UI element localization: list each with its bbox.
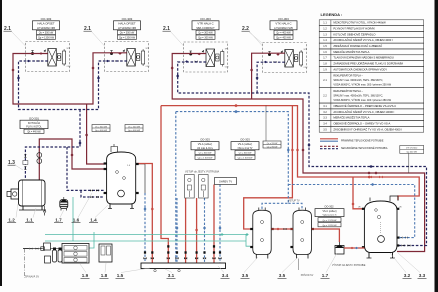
svg-text:OO-301: OO-301	[29, 116, 39, 120]
svg-text:OO-303: OO-303	[200, 17, 211, 21]
svg-text:Qp = 1300 kW: Qp = 1300 kW	[38, 36, 55, 39]
svg-text:3.2: 3.2	[323, 111, 327, 114]
svg-text:1.2: 1.2	[8, 217, 15, 222]
svg-text:REKUPERÁTOR TEPLA –: REKUPERÁTOR TEPLA –	[333, 74, 363, 77]
svg-text:1.9: 1.9	[323, 68, 327, 71]
svg-text:Qp 400 kW: Qp 400 kW	[406, 152, 416, 154]
svg-text:Vykurovanie S: Vykurovanie S	[322, 214, 337, 217]
svg-text:1.9: 1.9	[82, 273, 89, 278]
svg-text:SPALINY max. 4000m3/h, TEPL. 3: SPALINY max. 4000m3/h, TEPL. 380/130°C,	[333, 94, 383, 97]
svg-text:Qp = 460 kW: Qp = 460 kW	[128, 130, 140, 132]
svg-text:VÝSTUP NA JESTV. POTRUBIE: VÝSTUP NA JESTV. POTRUBIE	[332, 264, 366, 267]
svg-text:LITHOMAN IIIB: LITHOMAN IIIB	[118, 26, 136, 30]
svg-text:Qv = 300 kW: Qv = 300 kW	[120, 32, 135, 35]
svg-text:1.8: 1.8	[101, 273, 108, 278]
svg-text:Qk = 440 kW: Qk = 440 kW	[27, 131, 41, 133]
svg-text:VSTUP do JESTV. POTRUBIA: VSTUP do JESTV. POTRUBIA	[185, 171, 220, 174]
svg-text:Qp = 1 303 kW: Qp = 1 303 kW	[238, 157, 254, 159]
svg-text:VODA 80/60°C, VÝKON max. 400 /: VODA 80/60°C, VÝKON max. 400 / priemer 2…	[333, 99, 391, 102]
svg-text:HALA OFSET: HALA OFSET	[118, 22, 136, 26]
svg-text:LITHOMAN IIIB: LITHOMAN IIIB	[37, 26, 55, 30]
svg-text:Qp = 460 kW: Qp = 460 kW	[95, 130, 107, 132]
svg-text:OO-303: OO-303	[278, 17, 289, 21]
svg-text:Qv = 400 kW: Qv = 400 kW	[276, 32, 291, 35]
svg-text:1.3: 1.3	[323, 33, 327, 36]
svg-text:Qv = 93 kW: Qv = 93 kW	[267, 143, 278, 145]
svg-text:HALA OFSET: HALA OFSET	[37, 22, 55, 26]
svg-text:PLYNOVÝ PRETLAKOVÝ HORÁK: PLYNOVÝ PRETLAKOVÝ HORÁK	[333, 27, 375, 31]
svg-text:LEGENDA :: LEGENDA :	[321, 12, 343, 17]
svg-text:VS-C (odber): VS-C (odber)	[322, 210, 336, 213]
svg-text:VSTUP TV: VSTUP TV	[288, 200, 300, 203]
svg-text:REKUPERÁTOR TEPLA –: REKUPERÁTOR TEPLA –	[333, 90, 363, 93]
svg-text:OO-303: OO-303	[122, 17, 133, 21]
svg-text:ZTI 07/2012: ZTI 07/2012	[406, 148, 418, 150]
svg-text:PLYN. KOTOL: PLYN. KOTOL	[26, 126, 42, 129]
svg-text:PRIMÁRNE TEPLOVODNÉ POTRUBIE: PRIMÁRNE TEPLOVODNÉ POTRUBIE	[341, 139, 384, 142]
svg-text:AUTOMATICKÁ CHEMICKÁ ÚPRAVA VO: AUTOMATICKÁ CHEMICKÁ ÚPRAVA VODY	[333, 67, 387, 71]
svg-text:TLAKOVÁ EXPANZNÁ NÁDOBA S MEMB: TLAKOVÁ EXPANZNÁ NÁDOBA S MEMBRÁNOU	[333, 56, 393, 60]
svg-text:Qp = 400 kW: Qp = 400 kW	[276, 36, 291, 39]
svg-text:3.1: 3.1	[323, 105, 327, 108]
svg-text:1.1: 1.1	[323, 22, 327, 25]
svg-text:OO-303: OO-303	[240, 138, 250, 142]
svg-text:3.5: 3.5	[242, 273, 249, 278]
svg-text:LITHOMAN S35: LITHOMAN S35	[274, 26, 293, 30]
svg-text:3.3: 3.3	[419, 273, 426, 278]
svg-text:OO-303: OO-303	[41, 17, 52, 21]
svg-text:VS-A (odber): VS-A (odber)	[238, 143, 253, 146]
svg-text:NÍZKOTEPLOTNÝ KOTOL, VÝKON 440: NÍZKOTEPLOTNÝ KOTOL, VÝKON 440kW	[333, 21, 386, 25]
svg-text:VTR HALA C: VTR HALA C	[197, 22, 213, 26]
svg-text:1.2: 1.2	[323, 28, 327, 31]
svg-text:3.3: 3.3	[323, 117, 327, 120]
svg-text:Qv = 300 kW: Qv = 300 kW	[39, 32, 54, 35]
svg-text:3.5: 3.5	[279, 273, 286, 278]
svg-text:2.1: 2.1	[323, 79, 327, 82]
svg-text:1.8: 1.8	[323, 63, 327, 66]
svg-text:SEKUNDÁRNE TEPLOVODNÉ POTRUBIA: SEKUNDÁRNE TEPLOVODNÉ POTRUBIA	[341, 147, 388, 150]
svg-text:Qp = 86 kW: Qp = 86 kW	[267, 146, 278, 148]
svg-text:1.1: 1.1	[26, 217, 33, 222]
svg-text:AS máx.& Omv: AS máx.& Omv	[197, 147, 214, 150]
svg-text:1.7: 1.7	[323, 57, 327, 60]
svg-text:3.4: 3.4	[222, 273, 229, 278]
svg-text:3.2: 3.2	[404, 273, 411, 278]
svg-text:Qp = 1 303 kW: Qp = 1 303 kW	[198, 157, 214, 159]
svg-text:Qv = 1 123 kW: Qv = 1 123 kW	[323, 220, 337, 222]
svg-text:Qv = 640 kW: Qv = 640 kW	[199, 153, 213, 155]
svg-text:Qp = 1 870 kW: Qp = 1 870 kW	[323, 225, 337, 227]
svg-text:VS-A (odber): VS-A (odber)	[198, 143, 213, 146]
svg-text:VTK HALA C: VTK HALA C	[275, 22, 291, 26]
svg-text:Qv = 640 kW: Qv = 640 kW	[239, 153, 253, 155]
svg-text:3.1: 3.1	[168, 273, 175, 278]
svg-text:1.7: 1.7	[322, 273, 329, 278]
svg-text:Qv = 640 kW: Qv = 640 kW	[95, 126, 107, 128]
svg-text:1.4: 1.4	[90, 217, 97, 222]
svg-text:ŠPINAVÁ SV: ŠPINAVÁ SV	[25, 276, 39, 279]
svg-text:OO-303: OO-303	[200, 138, 210, 142]
svg-text:1.7: 1.7	[55, 217, 62, 222]
svg-text:3.4: 3.4	[323, 122, 327, 125]
svg-text:1.5: 1.5	[323, 45, 327, 48]
svg-text:PRÍVOD SV: PRÍVOD SV	[301, 274, 314, 277]
svg-text:Qv = 300 kW: Qv = 300 kW	[198, 32, 213, 35]
svg-text:1.5: 1.5	[117, 273, 124, 278]
svg-text:Qv = 540 kW: Qv = 540 kW	[128, 126, 140, 128]
svg-text:VODA 80/60°C, VÝKON max. 300 /: VODA 80/60°C, VÝKON max. 300 / priemer 2…	[333, 84, 391, 87]
svg-text:1.4: 1.4	[323, 39, 327, 42]
svg-text:SPALINY max. 6000m3/h, TEPL. 3: SPALINY max. 6000m3/h, TEPL. 380/130°C,	[333, 79, 383, 82]
svg-text:1.6: 1.6	[73, 217, 80, 222]
svg-text:1.6: 1.6	[323, 51, 327, 54]
svg-text:Qp = 1300 kW: Qp = 1300 kW	[119, 36, 136, 39]
svg-text:OHREV TV: OHREV TV	[219, 179, 232, 183]
svg-text:SBA COMPACT: SBA COMPACT	[196, 26, 215, 30]
svg-text:2.2: 2.2	[323, 94, 327, 97]
svg-text:Qp = 300 kW: Qp = 300 kW	[198, 36, 213, 39]
svg-text:OO-302: OO-302	[324, 205, 334, 209]
svg-text:Ohrev zmä TV: Ohrev zmä TV	[238, 147, 253, 150]
svg-text:3.5: 3.5	[323, 128, 327, 131]
